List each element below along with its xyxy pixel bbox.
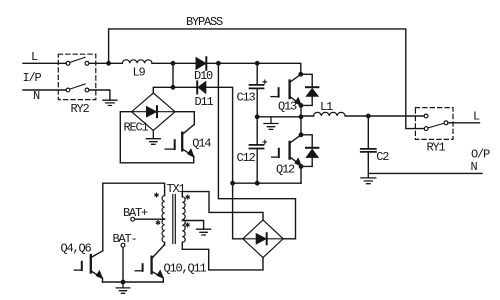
capacitor C13 (237, 63, 267, 117)
wire D10 node to bridge right corner (218, 63, 295, 239)
junction Q12 emitter (299, 164, 304, 169)
wire midpoint to Q12 collector (300, 117, 302, 135)
wire BAT+ tap (135, 218, 165, 220)
ground DC midpoint (264, 117, 278, 130)
node I/P label (23, 71, 42, 85)
wire N input (23, 89, 66, 91)
wire secondary tap to ground (182, 221, 203, 230)
svg-text:L9: L9 (133, 66, 146, 80)
junction Q13 emitter (299, 103, 304, 108)
wire L output (448, 122, 480, 124)
wire DC mid rail (257, 116, 301, 118)
rectifier REC1 (124, 93, 176, 135)
svg-text:C12: C12 (237, 151, 256, 165)
wire BAT- down (122, 247, 124, 282)
svg-text:L: L (31, 50, 38, 64)
terminal BAT+ (123, 206, 148, 221)
svg-text:N: N (33, 89, 40, 103)
ground REC1 (146, 131, 160, 145)
svg-text:C13: C13 (237, 90, 256, 104)
junction mid rail C13 (255, 114, 260, 119)
wire inverter output line (301, 115, 424, 117)
polarity mark secondary top (186, 195, 189, 199)
transformer TX1 (162, 182, 185, 244)
inductor L9 (122, 60, 152, 80)
node L output label (473, 110, 480, 124)
svg-text:L: L (473, 110, 480, 124)
wire REC1 left corner to Q14 emitter (120, 112, 193, 163)
rectifier bridge (243, 220, 283, 258)
svg-text:Q12: Q12 (276, 163, 295, 177)
transistor Q14 (165, 124, 211, 156)
junction negative rail C12 (255, 181, 260, 186)
svg-text:RY2: RY2 (71, 102, 90, 116)
diode Q13 freewheel (301, 74, 319, 105)
svg-text:N: N (471, 160, 478, 174)
wire Q12 emitter to negative rail (300, 166, 302, 183)
wire Q13 emitter to midpoint (300, 105, 302, 116)
junction Q13 collector (298, 72, 303, 77)
wire L input (23, 62, 66, 64)
relay RY1 (415, 108, 453, 155)
ground RY2 (103, 100, 117, 105)
junction mid rail L1 (299, 114, 304, 119)
wire primary bottom to Q10 collector (163, 242, 165, 245)
svg-text:Q13: Q13 (278, 100, 297, 114)
terminal BAT- (113, 232, 137, 247)
junction C13 top (255, 61, 260, 66)
node N output label (471, 160, 478, 174)
svg-text:L1: L1 (320, 100, 333, 114)
node O/P label (471, 148, 490, 162)
polarity mark primary top (155, 193, 158, 197)
inductor L1 (314, 100, 346, 116)
wire L line to D11 (172, 63, 174, 87)
wire REC1 top stub to D11 cathode (153, 87, 196, 93)
wire AC L line (89, 63, 301, 74)
wire REC1 right corner to Q14 collector (175, 112, 194, 125)
diode D10 (194, 57, 213, 83)
svg-text:Q4,Q6: Q4,Q6 (61, 242, 92, 256)
ground TX1 secondary (197, 229, 211, 235)
wire secondary top to bridge top (182, 192, 263, 220)
polarity mark primary mid (156, 221, 159, 225)
diode Q12 freewheel (301, 135, 318, 167)
label BYPASS (186, 15, 223, 29)
polarity mark secondary mid (186, 223, 189, 227)
junction Q12 collector (299, 132, 304, 137)
transistor Q4 Q6 (61, 242, 103, 283)
svg-text:Q10,Q11: Q10,Q11 (164, 262, 207, 276)
relay RY2 (58, 54, 96, 116)
transistor Q13 (271, 74, 301, 113)
junction negative rail D11 (230, 181, 235, 186)
ground battery (116, 282, 130, 293)
svg-text:I/P: I/P (23, 71, 42, 85)
svg-text:RY1: RY1 (427, 141, 446, 155)
junction D11 branch (171, 61, 176, 66)
capacitor C12 (237, 117, 267, 183)
wire Q4 collector to TX1 primary top (103, 183, 165, 251)
transistor Q10 Q11 (135, 245, 206, 282)
junction D11 tee (171, 85, 176, 90)
wire bypass line (109, 29, 425, 129)
junction bypass tap (106, 61, 111, 66)
svg-text:D11: D11 (195, 95, 214, 109)
svg-text:BAT+: BAT+ (123, 206, 148, 220)
transistor Q12 (272, 135, 302, 177)
wire negative rail (233, 182, 301, 184)
svg-text:BYPASS: BYPASS (186, 15, 223, 29)
junction battery return (121, 280, 126, 285)
node L input label (31, 50, 38, 64)
ground C2 (361, 173, 376, 183)
junction C2 tap (366, 114, 371, 119)
node N input label (33, 89, 40, 103)
wire RY2 N to ground (89, 90, 110, 100)
wire D11 anode to negative rail and bridge left corner (206, 87, 242, 239)
svg-text:Q14: Q14 (192, 136, 211, 150)
capacitor C2 (361, 116, 390, 173)
wire emitter rail (103, 281, 164, 283)
svg-text:REC1: REC1 (124, 121, 149, 135)
junction D10 cathode node (216, 61, 221, 66)
svg-text:C2: C2 (376, 150, 389, 164)
diode D11 (195, 81, 214, 109)
wire N output (368, 172, 482, 174)
wire secondary bottom to bridge bottom (182, 242, 263, 270)
